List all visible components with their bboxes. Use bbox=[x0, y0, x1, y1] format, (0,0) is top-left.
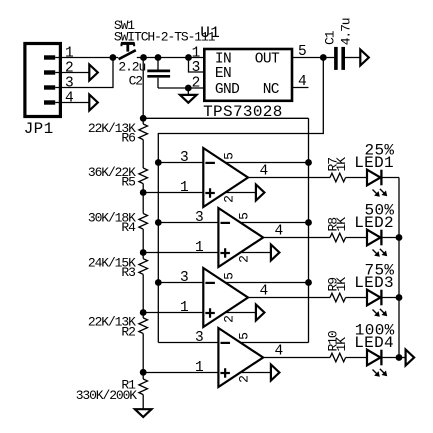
port arrow at op-amp 3 pin 2 bbox=[256, 305, 265, 321]
node junction U1 pin1/pin3 tie bbox=[185, 54, 192, 61]
svg-text:U1: U1 bbox=[200, 24, 220, 42]
svg-text:1K: 1K bbox=[334, 157, 349, 172]
svg-text:R2: R2 bbox=[121, 324, 135, 339]
svg-text:NC: NC bbox=[263, 82, 280, 98]
U1 pin 5 OUT wire bbox=[292, 44, 335, 60]
svg-text:1: 1 bbox=[195, 240, 203, 256]
node junction chain top bbox=[140, 115, 147, 122]
wire R8 to LED2 bbox=[346, 237, 367, 239]
svg-text:2: 2 bbox=[192, 75, 200, 91]
wire LED4 cathode to right rail bbox=[381, 357, 399, 359]
port arrow at JP1 pin 2 bbox=[89, 65, 98, 81]
wire R6-R5 bbox=[142, 140, 144, 168]
svg-text:3: 3 bbox=[195, 210, 203, 226]
svg-text:GND: GND bbox=[215, 82, 239, 98]
op-amp 3 V- pin 2 wire bbox=[223, 312, 256, 314]
wire V+ rail vertical bbox=[308, 118, 310, 342]
op-amp 2 V+ pin 5 wire bbox=[238, 222, 308, 224]
op U1 pin1-pin3 tie bracket bbox=[189, 58, 204, 73]
LED LED3 (75%) bbox=[354, 262, 394, 317]
node tap3 bbox=[140, 309, 147, 316]
svg-text:LED3: LED3 bbox=[354, 274, 394, 292]
svg-text:2: 2 bbox=[237, 376, 252, 383]
connector JP1 outline bbox=[24, 44, 61, 139]
svg-text:1K: 1K bbox=[334, 217, 349, 232]
svg-text:LED4: LED4 bbox=[354, 334, 394, 352]
connector JP1 pin 1 bbox=[44, 46, 73, 62]
U1 pin 2 stub bbox=[188, 87, 203, 89]
wire R1 to ground bbox=[142, 395, 144, 410]
connector JP1 pin 4 bbox=[44, 91, 73, 107]
svg-text:LED2: LED2 bbox=[354, 214, 394, 232]
node junction rail/op1 -input bbox=[155, 159, 162, 166]
wire chain tap to op-amp 1 +input bbox=[143, 192, 205, 194]
port arrow at op-amp 1 pin 2 bbox=[256, 185, 265, 201]
node junction LED2 cathode bbox=[396, 234, 403, 241]
U1 pin 2 label bbox=[192, 75, 200, 91]
resistor R10 1K bbox=[325, 331, 349, 362]
op-amp 1 pin labels bbox=[180, 150, 268, 203]
wire tap4-R1 bbox=[142, 372, 144, 379]
wire chain tap to op-amp 2 +input bbox=[143, 252, 220, 254]
resistor R6 22K/13K bbox=[88, 121, 148, 146]
op-amp 2 output wire bbox=[263, 237, 330, 239]
node junction V+ rail / op1 pin5 bbox=[305, 159, 312, 166]
resistor R9 1K bbox=[325, 277, 349, 302]
wire R7 to LED1 bbox=[346, 177, 367, 179]
ground symbol at U1 GND bbox=[180, 88, 197, 103]
wire reference rail to op-amp 2 -input bbox=[158, 222, 220, 224]
wire tap1-R4 bbox=[142, 193, 144, 214]
connector JP1 pin 2 bbox=[44, 61, 73, 77]
op-amp 4 V+ pin 5 wire bbox=[238, 342, 308, 344]
resistor R3 24K/15K bbox=[88, 256, 148, 281]
U1 pin 3 label bbox=[192, 60, 200, 76]
wire LED cathode rail bbox=[398, 178, 400, 358]
wire switch SW1 to regulator U1 IN bbox=[137, 57, 204, 59]
resistor R2 22K/13K bbox=[88, 315, 148, 340]
svg-text:OUT: OUT bbox=[255, 51, 280, 67]
wire LED1 cathode to right rail bbox=[381, 177, 399, 179]
wire R3 to tap3 bbox=[142, 274, 144, 312]
wire R2 to tap4 bbox=[142, 334, 144, 373]
op-amp 1 output wire bbox=[248, 177, 330, 179]
svg-text:3: 3 bbox=[192, 60, 200, 76]
svg-text:4.7u: 4.7u bbox=[338, 18, 353, 45]
svg-text:2.2u: 2.2u bbox=[118, 59, 145, 74]
port arrow at op-amp 2 pin 2 bbox=[271, 245, 280, 261]
wire LED3 cathode to right rail bbox=[381, 297, 399, 299]
svg-text:1: 1 bbox=[65, 46, 73, 62]
svg-text:1: 1 bbox=[180, 300, 188, 316]
op-amp 3 V+ pin 5 wire bbox=[223, 282, 308, 284]
wire C1 to output port bbox=[345, 57, 361, 59]
svg-text:1: 1 bbox=[180, 180, 188, 196]
svg-text:1K: 1K bbox=[334, 277, 349, 292]
wire LED2 cathode to right rail bbox=[381, 237, 399, 239]
port arrow at LED rail bbox=[406, 350, 415, 366]
port arrow at JP1 pin 4 bbox=[89, 95, 98, 111]
wire JP1 pin4 to port arrow bbox=[55, 102, 89, 104]
svg-text:1: 1 bbox=[195, 360, 203, 376]
wire reference rail to op-amp 3 -input bbox=[158, 282, 205, 284]
op-amp 3 pin labels bbox=[180, 270, 268, 323]
op-amp U1 comparator bbox=[203, 148, 248, 207]
wire JP1 pin2 to port arrow bbox=[55, 72, 89, 74]
op-amp 4 pin labels bbox=[195, 330, 283, 383]
node junction rail/op2 -input bbox=[155, 219, 162, 226]
wire chain top segment bbox=[142, 58, 144, 125]
svg-text:JP1: JP1 bbox=[24, 120, 54, 138]
svg-text:5: 5 bbox=[236, 333, 251, 340]
op-amp 4 V- pin 2 wire bbox=[238, 372, 271, 374]
svg-text:R3: R3 bbox=[121, 265, 135, 280]
IC U1 TPS73028 box bbox=[200, 24, 292, 121]
svg-text:C1: C1 bbox=[323, 30, 338, 45]
resistor R5 36K/22K bbox=[88, 165, 148, 190]
wire R9 to LED3 bbox=[346, 297, 367, 299]
svg-text:3: 3 bbox=[180, 270, 188, 286]
svg-text:2: 2 bbox=[222, 196, 237, 203]
svg-text:R5: R5 bbox=[121, 175, 135, 190]
svg-text:2: 2 bbox=[222, 316, 237, 323]
LED LED4 (100%) bbox=[354, 322, 394, 377]
svg-text:2: 2 bbox=[65, 61, 73, 77]
wire reference rail to op-amp 1 -input bbox=[158, 162, 205, 164]
svg-text:1K: 1K bbox=[334, 337, 349, 352]
wire reference rail corner to op-amp 4 -input bbox=[158, 342, 220, 344]
op-amp U4 comparator bbox=[218, 328, 263, 387]
wire R10 to LED4 bbox=[346, 357, 367, 359]
wire OUT reference loop bbox=[158, 58, 323, 343]
ground symbol at R1 bbox=[135, 409, 152, 417]
svg-text:R6: R6 bbox=[121, 131, 135, 146]
wire tap3-R2 bbox=[142, 313, 144, 318]
node junction LED4 cathode bbox=[396, 354, 403, 361]
LED LED1 (25%) bbox=[354, 142, 394, 197]
op-amp 2 pin labels bbox=[195, 210, 283, 263]
node junction JP1 pin1 / pin3 bbox=[110, 54, 117, 61]
node junction top wire / divider chain bbox=[140, 54, 147, 61]
node tap4 bbox=[140, 369, 147, 376]
svg-text:5: 5 bbox=[221, 153, 236, 160]
op-amp U3 comparator bbox=[203, 268, 248, 327]
node junction rail/op3 -input bbox=[155, 279, 162, 286]
svg-text:3: 3 bbox=[195, 330, 203, 346]
svg-text:4: 4 bbox=[65, 91, 73, 107]
op-amp 1 V+ pin 5 wire bbox=[223, 162, 308, 164]
svg-text:5: 5 bbox=[236, 213, 251, 220]
port arrow at op-amp 4 pin 2 bbox=[271, 365, 280, 381]
wire battery V+ rail horizontal bbox=[143, 117, 308, 119]
wire C2 bottom to U1 GND bbox=[158, 87, 188, 89]
connector JP1 pin 3 bbox=[44, 76, 73, 92]
op-amp 3 output wire bbox=[248, 297, 330, 299]
svg-text:4: 4 bbox=[298, 74, 306, 90]
wire JP1 pin1 to switch SW1 bbox=[55, 57, 118, 59]
svg-text:3: 3 bbox=[65, 76, 73, 92]
op-amp 4 output wire bbox=[263, 357, 330, 359]
node tap2 bbox=[140, 249, 147, 256]
U1 pin 1 label bbox=[192, 46, 200, 62]
node junction LED3 cathode bbox=[396, 294, 403, 301]
svg-text:C2: C2 bbox=[129, 74, 143, 89]
wire R5 to tap1 bbox=[142, 184, 144, 193]
node junction V+ rail / op2 pin5 bbox=[305, 219, 312, 226]
wire chain tap to op-amp 4 +input bbox=[143, 372, 220, 374]
node tap1 bbox=[140, 189, 147, 196]
capacitor C2 2.2u bbox=[118, 58, 170, 89]
svg-text:IN: IN bbox=[215, 51, 231, 67]
svg-text:5: 5 bbox=[298, 44, 306, 60]
svg-text:5: 5 bbox=[221, 273, 236, 280]
node junction OUT / C1 bbox=[320, 54, 327, 61]
resistor R8 1K bbox=[325, 217, 349, 242]
svg-text:LED1: LED1 bbox=[354, 154, 394, 172]
switch SW1 lever and actuator bbox=[114, 18, 216, 59]
wire tap2-R3 bbox=[142, 253, 144, 259]
node junction V+ rail / op3 pin5 bbox=[305, 279, 312, 286]
op-amp 2 V- pin 2 wire bbox=[238, 252, 271, 254]
svg-text:EN: EN bbox=[215, 66, 231, 82]
wire JP1 pin3 up to pin1 node bbox=[55, 58, 113, 88]
node junction GND net bbox=[185, 85, 192, 92]
wire chain tap to op-amp 3 +input bbox=[143, 312, 205, 314]
op-amp U2 comparator bbox=[218, 208, 263, 267]
wire R4 to tap2 bbox=[142, 229, 144, 252]
port arrow at C1 output bbox=[360, 50, 369, 66]
svg-text:3: 3 bbox=[180, 150, 188, 166]
op-amp 1 V- pin 2 wire bbox=[223, 192, 256, 194]
U1 pin 4 NC stub bbox=[292, 74, 309, 90]
capacitor C1 4.7u bbox=[323, 18, 354, 70]
resistor R4 30K/18K bbox=[88, 210, 148, 235]
node junction top wire / capacitor C2 bbox=[155, 54, 162, 61]
resistor R1 330K/200K bbox=[76, 377, 148, 403]
svg-text:R4: R4 bbox=[121, 220, 136, 235]
wire LED rail to port bbox=[399, 357, 406, 359]
LED LED2 (50%) bbox=[354, 202, 394, 257]
svg-text:330K/200K: 330K/200K bbox=[76, 388, 138, 403]
resistor R7 1K bbox=[325, 157, 349, 182]
svg-text:2: 2 bbox=[237, 256, 252, 263]
